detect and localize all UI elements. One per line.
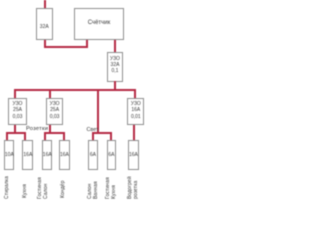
- breaker 32A (input): [36, 8, 53, 40]
- load label Стиралка: [5, 176, 11, 199]
- breaker 16А (Водогрей розетка): [128, 140, 139, 170]
- breaker 10А (Стиралка): [4, 140, 14, 170]
- load label Водогрей розетка: [128, 176, 139, 199]
- wire: bus drop to RCD group B: [49, 90, 51, 98]
- wire: drop to breaker 10А Стиралка: [6, 133, 8, 140]
- wire: RCD B output down: [49, 125, 51, 133]
- wire: main distribution bus: [14, 89, 136, 91]
- breaker 6А (Свет Гостиная Кухня): [107, 140, 117, 170]
- wire: drop to breaker 16А Кухня: [24, 133, 26, 140]
- load label Гостиная Кухня: [106, 177, 117, 199]
- RCD УЗО 25А 0,03 (sockets group 2): [46, 98, 64, 125]
- meter Счётчик: [74, 8, 124, 40]
- load label Салон Ванная: [88, 181, 99, 199]
- load label Гостиная Салон: [38, 177, 49, 199]
- label Розетки: [26, 126, 48, 132]
- wire: RCD 32A output to bus: [114, 81, 116, 89]
- wire: split bar group 1: [6, 132, 26, 134]
- breaker 16А (Кондёр): [59, 140, 70, 170]
- wire: bus drop to RCD group A: [14, 90, 16, 98]
- wire: bus drop to RCD group C: [134, 90, 136, 98]
- RCD УЗО 25А 0,03 (sockets group 1): [8, 98, 27, 125]
- wire: split bar light group: [92, 132, 112, 134]
- breaker 16А (Гостиная Салон): [42, 140, 52, 170]
- wire: 32A breaker output down: [44, 40, 46, 48]
- wire: incoming feed to breaker 32A: [44, 0, 46, 9]
- wire: riser up into meter bottom: [86, 40, 88, 48]
- wire: drop to breaker 16А Гостиная Салон: [44, 133, 46, 140]
- RCD УЗО 32А 0,1: [107, 52, 123, 82]
- wire: drop to breaker 6А Гостиная Кухня: [110, 133, 112, 140]
- wire: meter output down to RCD 32A: [114, 40, 116, 53]
- breaker 16А (Кухня): [22, 140, 33, 170]
- wire: RCD A output down: [14, 125, 16, 133]
- wire: bus drop to light group (Свет): [97, 90, 99, 133]
- wire: horizontal connector to meter: [44, 46, 89, 48]
- wire: drop to breaker 16А Кондёр: [63, 133, 65, 140]
- breaker 6А (Свет Салон Ванная): [88, 140, 98, 170]
- RCD УЗО 16А 0,01 (water heater): [127, 98, 144, 125]
- load label Кухня: [23, 184, 29, 198]
- wire: RCD C output down to breaker 16А Водогрей: [133, 125, 135, 141]
- load label Кондёр: [61, 180, 67, 198]
- wire: split bar group 2: [44, 132, 65, 134]
- wire: drop to breaker 6А Салон Ванная: [92, 133, 94, 140]
- label Свет: [87, 127, 99, 133]
